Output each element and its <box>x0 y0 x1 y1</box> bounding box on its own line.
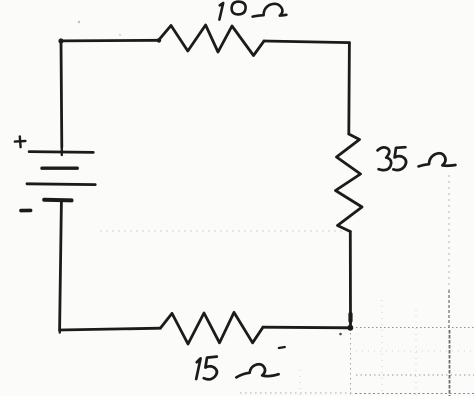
bottom-right corner junction dot <box>347 325 353 331</box>
wire left side, top-left corner down to battery + plate <box>60 41 64 147</box>
wire R3 to bottom-left corner <box>60 328 161 330</box>
stray dash above bottom ohm <box>279 347 285 348</box>
battery B1 positive long plate crossing wire <box>61 147 63 155</box>
junction blob at R1 left lead <box>157 38 162 43</box>
label 35 digit 3 <box>378 147 392 170</box>
label 35 digit 5 <box>393 147 406 170</box>
junction blob on right wire <box>348 314 352 321</box>
label 10 digit 0 <box>232 2 246 15</box>
label ohm symbol top <box>253 4 287 17</box>
top-left corner dot <box>58 38 63 43</box>
wire R1 to top-right corner <box>264 41 349 43</box>
bottom-left corner overshoot <box>58 330 61 333</box>
wire top-left corner to R1 <box>61 39 159 42</box>
wire battery − down to bottom-left corner <box>60 202 62 330</box>
+ label of battery <box>15 140 26 143</box>
battery plate 4 (short, −) <box>44 198 71 203</box>
label ohm symbol right <box>419 153 456 166</box>
stray dot near bottom-right corner <box>339 333 342 336</box>
battery plate 1 (long, +) <box>29 150 93 154</box>
faint speckle upper-left <box>78 21 80 23</box>
label 10 digit 1 <box>219 3 223 20</box>
wire R2 down to bottom-right corner <box>349 232 352 329</box>
− label of battery <box>21 209 31 213</box>
battery plate 2 (short) <box>42 166 77 169</box>
resistor R2 (35 ohm, right) <box>336 134 363 232</box>
wire right side, top-right corner down to R2 <box>347 43 350 134</box>
label 15 digit 1 <box>196 358 200 379</box>
label ohm symbol bottom <box>236 364 278 377</box>
label 15 digit 5 <box>204 357 217 380</box>
wire bottom-right corner to R3 <box>263 326 350 329</box>
faint graph-paper grid <box>100 175 474 396</box>
resistor R3 (15 ohm, bottom) <box>160 312 263 344</box>
resistor R1 (10 ohm, top) <box>159 25 265 56</box>
battery plate 3 (long) <box>27 182 95 186</box>
